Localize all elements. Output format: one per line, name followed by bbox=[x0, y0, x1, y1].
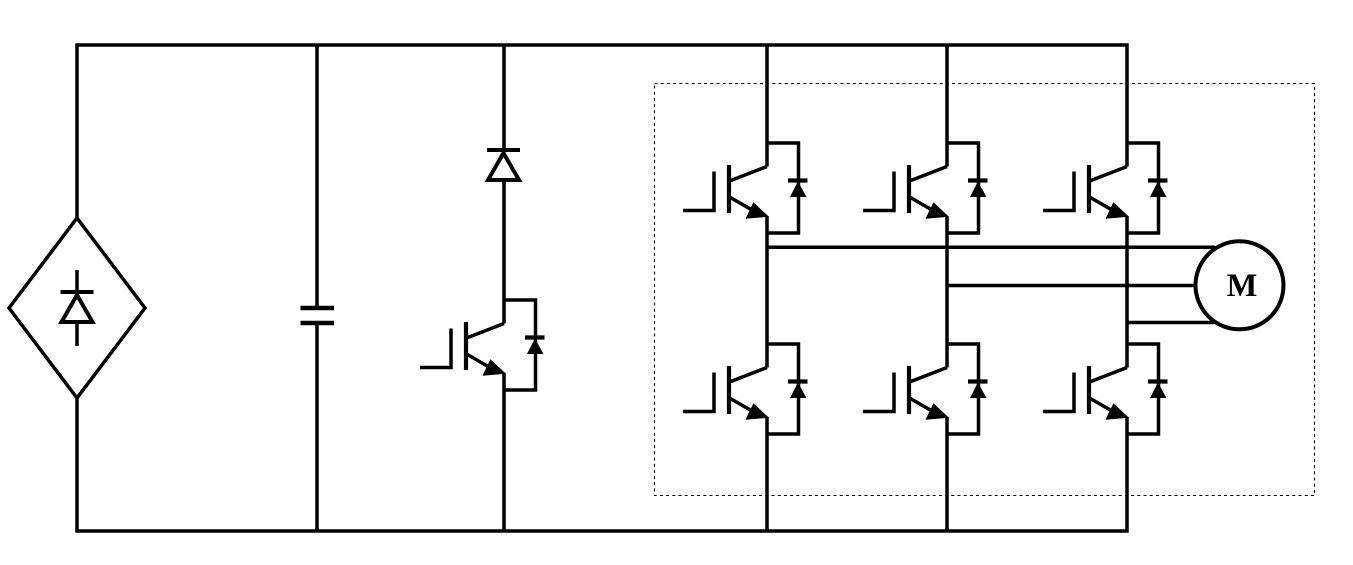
svg-text:M: M bbox=[1227, 268, 1258, 304]
